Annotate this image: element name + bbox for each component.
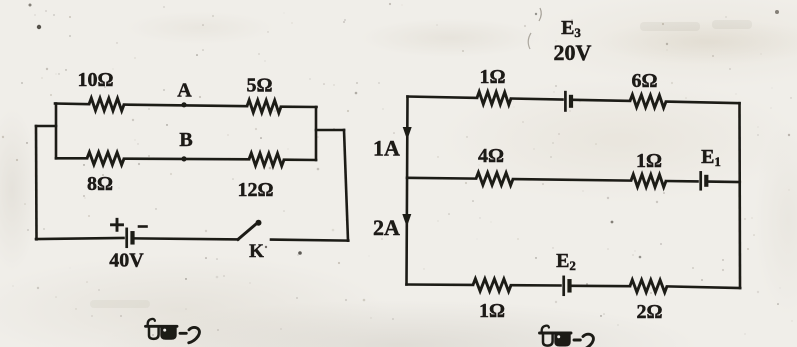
- svg-text:8Ω: 8Ω: [87, 173, 113, 195]
- svg-text:6Ω: 6Ω: [631, 70, 657, 92]
- svg-text:2A: 2A: [373, 215, 400, 240]
- svg-text:40V: 40V: [109, 250, 144, 272]
- svg-text:5Ω: 5Ω: [246, 75, 272, 97]
- svg-text:1Ω: 1Ω: [479, 66, 505, 88]
- svg-text:E1: E1: [701, 146, 721, 169]
- svg-text:1Ω: 1Ω: [479, 300, 505, 322]
- svg-text:E3: E3: [561, 17, 581, 40]
- svg-text:10Ω: 10Ω: [77, 69, 113, 91]
- svg-text:E2: E2: [556, 250, 576, 273]
- svg-text:K: K: [249, 241, 264, 262]
- svg-text:12Ω: 12Ω: [237, 179, 273, 201]
- svg-text:B: B: [179, 129, 192, 151]
- svg-text:4Ω: 4Ω: [478, 145, 504, 167]
- svg-text:A: A: [177, 80, 192, 102]
- svg-text:1A: 1A: [373, 136, 400, 161]
- svg-text:20V: 20V: [554, 40, 592, 65]
- svg-text:1Ω: 1Ω: [636, 150, 662, 172]
- svg-text:2Ω: 2Ω: [636, 301, 662, 323]
